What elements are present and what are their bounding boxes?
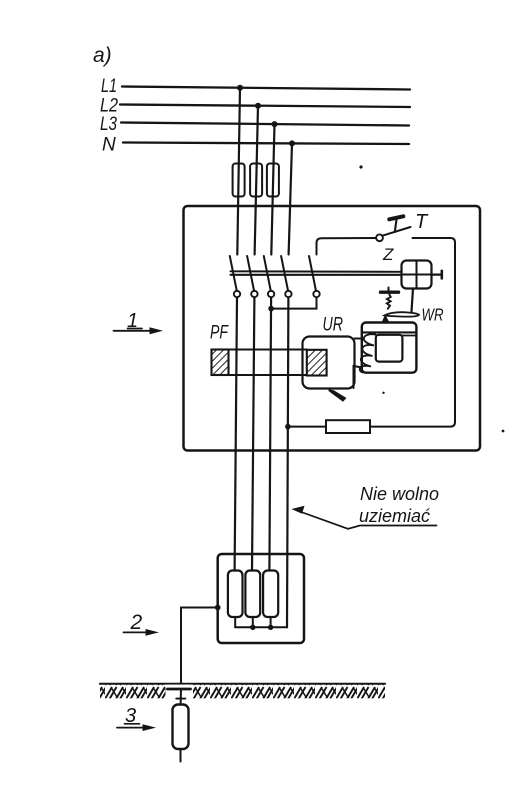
wire feeder L1 drop: [237, 88, 240, 255]
wire bus L2: [120, 105, 410, 108]
scan speck 3: [382, 392, 384, 394]
fuse F3: [267, 164, 279, 197]
node on L2: [255, 103, 261, 109]
breaker blade pole 2: [247, 256, 254, 291]
node bus-fuse3: [268, 625, 273, 630]
CT PF right core block: [307, 350, 327, 376]
node on L3: [272, 121, 278, 127]
breaker contact circle pole 4: [285, 291, 291, 297]
breaker blade pole 3: [264, 256, 271, 291]
relay UR box: [303, 337, 355, 389]
earth electrode tail: [180, 749, 182, 762]
pushbutton T stem: [395, 220, 397, 233]
wire aux contact up to test circuit: [317, 238, 377, 255]
svg-text:2: 2: [130, 611, 143, 634]
breaker contact circle pole 2: [251, 291, 257, 297]
stub fuse2 to bus: [252, 617, 254, 627]
node bus-fuse2: [250, 625, 255, 630]
switch T blade: [383, 227, 411, 236]
svg-text:L3: L3: [100, 114, 117, 135]
electromagnet WR window top extension: [402, 335, 416, 337]
svg-text:N: N: [102, 135, 116, 156]
resistor: [326, 420, 370, 433]
svg-text:uziemiać: uziemiać: [359, 506, 430, 526]
svg-text:PF: PF: [210, 323, 229, 344]
svg-text:Nie wolno: Nie wolno: [360, 484, 439, 504]
enclosure box 1 (circuit breaker unit): [184, 206, 481, 451]
CT PF top line: [212, 348, 308, 350]
electromagnet WR window: [376, 335, 403, 362]
earthing fuse 2: [245, 571, 260, 618]
earthing fuse 1: [228, 571, 243, 618]
svg-text:L1: L1: [101, 76, 117, 97]
Z box horizontal divider: [402, 274, 431, 276]
node earthing tap on box edge: [215, 605, 221, 611]
wire pole2 lower: [252, 297, 254, 570]
fuse F1: [233, 164, 245, 197]
wire feeder L3 drop: [271, 124, 274, 254]
scan speck 2: [502, 430, 505, 433]
stub fuse3 to bus: [270, 617, 272, 627]
fuse F2: [250, 164, 262, 197]
scan speck 1: [359, 165, 362, 168]
soil hatching band: [100, 685, 385, 699]
tick on lead: [176, 698, 185, 700]
underline of label 1: [128, 328, 143, 330]
drive unit Z box: [402, 261, 432, 289]
wire UR to WR coil top: [355, 338, 363, 340]
node junction aux-L3: [268, 306, 274, 312]
wire lead through soil: [180, 689, 182, 705]
Z shaft end cap: [440, 271, 443, 279]
arrow for label 3: [117, 727, 144, 729]
Z box vertical divider: [416, 261, 418, 288]
breaker blade aux pole 5: [309, 256, 316, 291]
armature pivot: [382, 314, 390, 322]
svg-text:UR: UR: [323, 315, 344, 336]
node on L1: [237, 85, 243, 91]
earth electrode 3: [173, 705, 189, 750]
drive bar lower line / shaft to Z: [231, 274, 402, 276]
breaker blade pole 4: [281, 256, 288, 291]
CT PF bottom line: [212, 374, 308, 376]
pointer line from label to conductors: [297, 511, 437, 529]
electromagnet WR yoke outer: [362, 323, 417, 373]
wire bus L1: [122, 87, 410, 90]
breaker contact circle pole 3: [268, 291, 274, 297]
wire Z to armature lever: [412, 289, 414, 312]
wire feeder N drop: [289, 143, 292, 254]
Z shaft stub right: [432, 274, 442, 276]
svg-text:a): a): [93, 44, 112, 67]
wire earthing down lead: [180, 608, 182, 684]
node resistor-N junction: [285, 424, 291, 430]
breaker blade pole 1: [230, 256, 237, 291]
svg-text:Z: Z: [382, 245, 394, 264]
spring to armature: [387, 295, 391, 309]
CT PF left core block: [212, 350, 229, 376]
earth plate bar: [168, 688, 191, 691]
node on N: [289, 140, 295, 146]
pointer arrowhead: [292, 506, 305, 514]
wire feeder L2 drop: [255, 106, 258, 255]
earthing bus bottom: [235, 626, 287, 628]
switch T hinge circle: [376, 234, 383, 241]
breaker contact circle pole 1: [234, 291, 240, 297]
wire pole4 lower (N conductor to earthing box): [287, 297, 288, 627]
drive bar upper line: [231, 270, 402, 273]
wire earthing tap horizontal: [181, 607, 218, 609]
wire pole1 lower: [235, 297, 237, 570]
wire aux contact to L3 conductor: [271, 297, 316, 308]
wire from T fixed terminal down right side to resistor: [370, 238, 455, 427]
wire bus N: [123, 143, 409, 145]
wire UR to WR coil bottom step: [354, 366, 363, 388]
soil gap at lead: [166, 685, 194, 699]
earthing fuse 3: [263, 571, 278, 618]
wire resistor to N conductor: [288, 426, 326, 428]
pushbutton T head: [389, 216, 403, 219]
trip arrow under UR: [329, 389, 347, 402]
coil of WR: [360, 334, 376, 372]
underline of label 3: [125, 723, 140, 725]
electromagnet WR top bar line: [362, 331, 416, 333]
svg-text:WR: WR: [422, 305, 444, 325]
ground surface line: [100, 683, 385, 685]
earthing box 2: [218, 554, 304, 643]
armature lever of WR: [385, 312, 420, 316]
anchor tick: [388, 288, 390, 292]
stub fuse1 to bus: [234, 617, 236, 627]
wire pole3 lower: [269, 297, 271, 570]
wire bus L3: [121, 123, 409, 126]
arrow for label 1: [114, 330, 152, 332]
arrow for label 2: [124, 631, 148, 633]
svg-text:T: T: [415, 211, 429, 233]
anchor bar of spring: [381, 291, 399, 294]
breaker contact circle aux pole 5: [313, 291, 319, 297]
